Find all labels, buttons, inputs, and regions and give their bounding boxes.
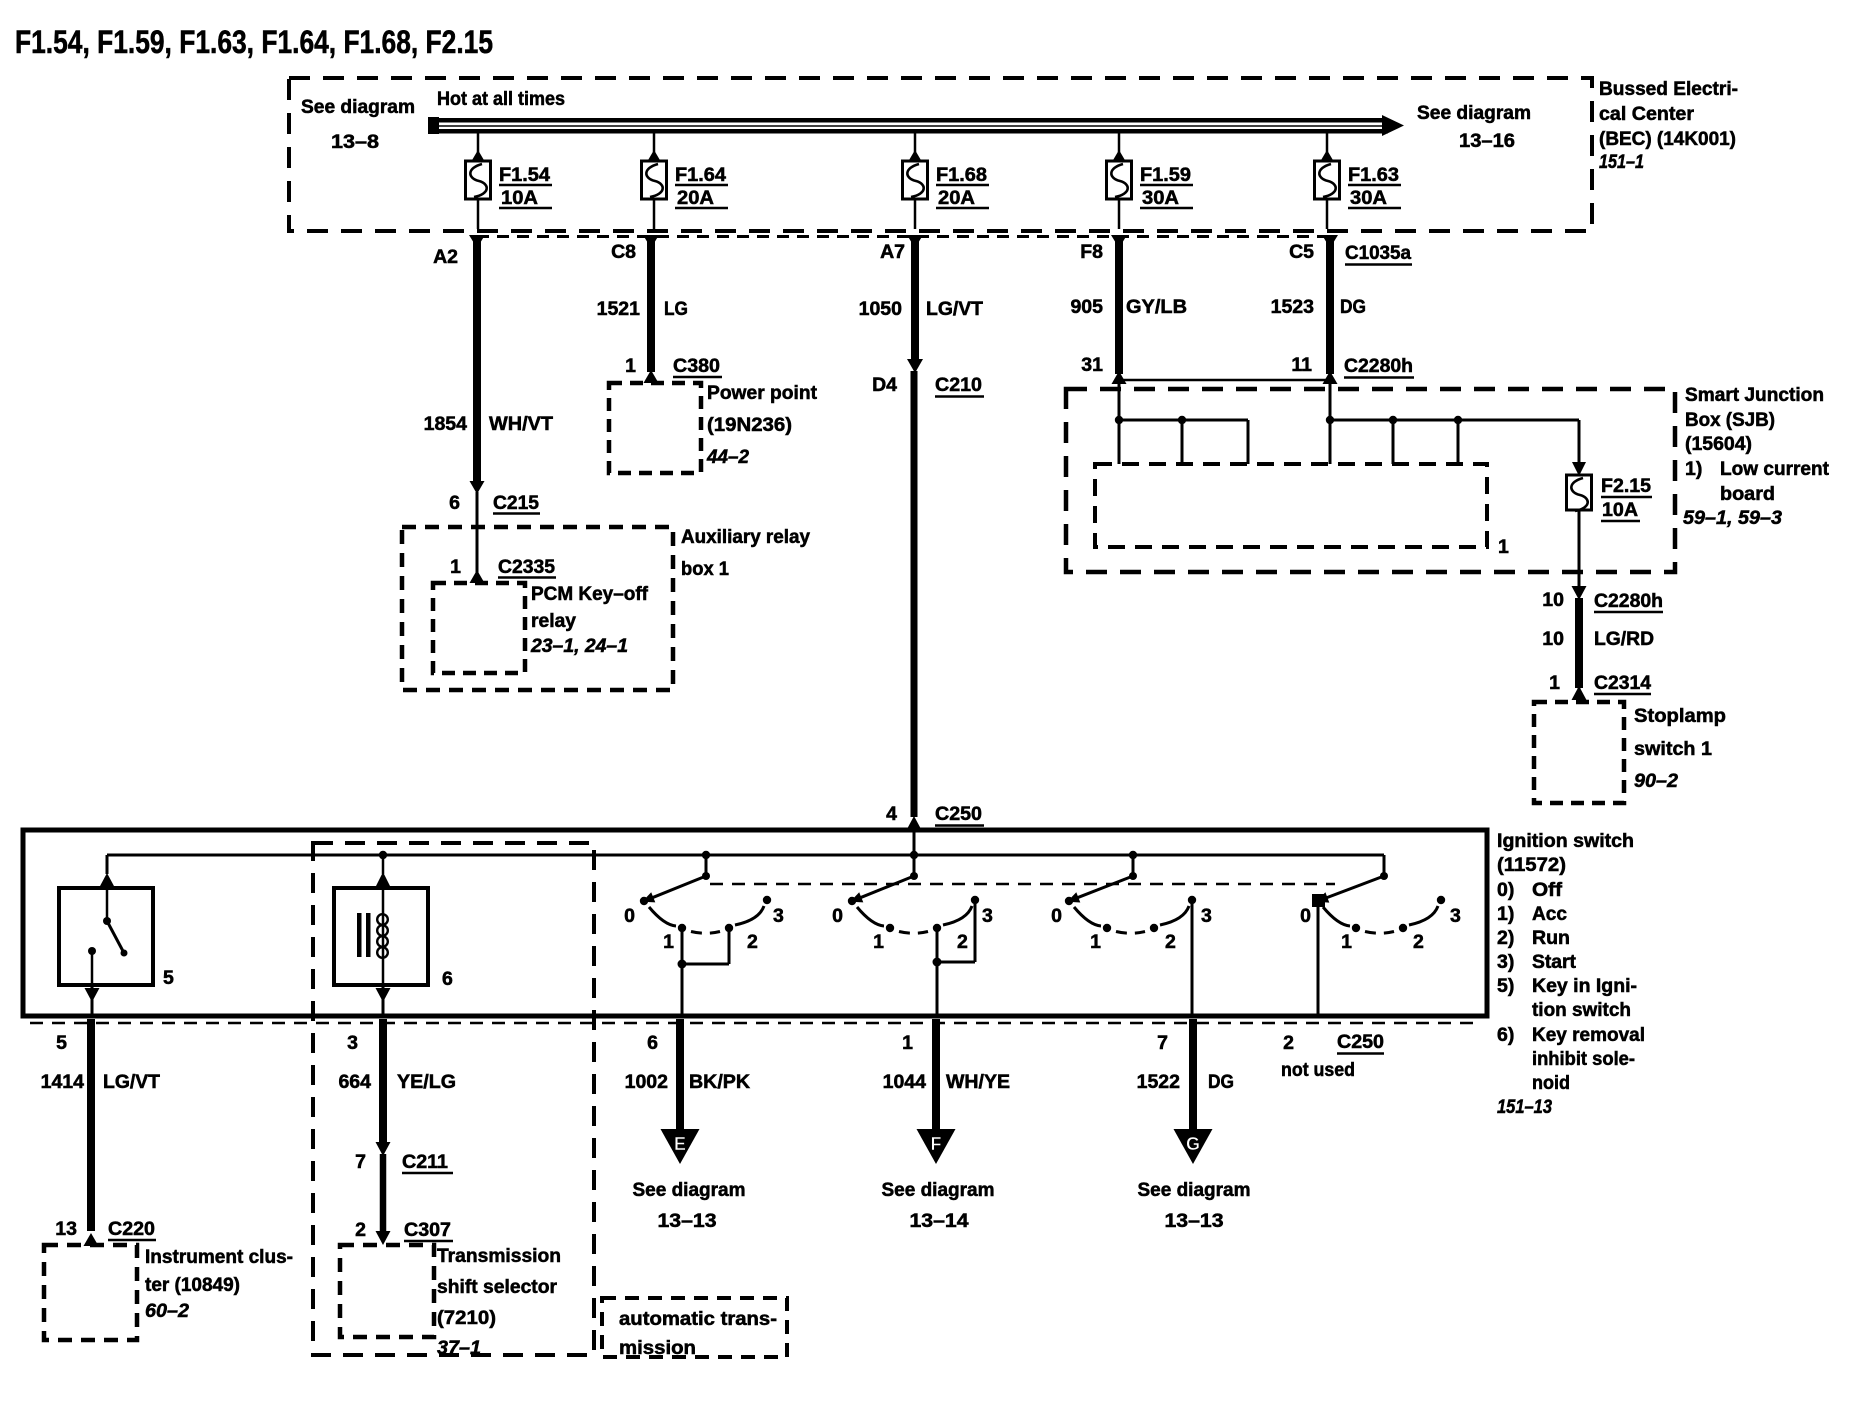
svg-text:E: E xyxy=(674,1134,686,1154)
svg-text:1: 1 xyxy=(450,556,461,578)
svg-text:Stoplamp: Stoplamp xyxy=(1634,705,1726,727)
svg-text:C2280h: C2280h xyxy=(1594,590,1663,612)
svg-text:DG: DG xyxy=(1340,296,1366,318)
svg-text:F8: F8 xyxy=(1080,241,1103,263)
svg-text:6: 6 xyxy=(647,1032,658,1054)
svg-text:Start: Start xyxy=(1532,951,1576,973)
svg-text:10: 10 xyxy=(1542,589,1564,611)
svg-text:F2.15: F2.15 xyxy=(1601,475,1651,497)
svg-text:F1.59: F1.59 xyxy=(1140,164,1191,186)
svg-text:7: 7 xyxy=(1157,1032,1168,1054)
svg-text:Key in Igni-: Key in Igni- xyxy=(1532,975,1637,997)
svg-text:C215: C215 xyxy=(493,492,539,514)
svg-text:13–14: 13–14 xyxy=(910,1210,969,1232)
svg-text:C250: C250 xyxy=(1337,1031,1384,1053)
svg-text:3: 3 xyxy=(982,905,993,927)
svg-text:A7: A7 xyxy=(880,241,905,263)
svg-text:Transmission: Transmission xyxy=(437,1245,561,1267)
svg-text:6): 6) xyxy=(1497,1024,1514,1046)
svg-text:F1.64: F1.64 xyxy=(675,164,726,186)
svg-text:Smart Junction: Smart Junction xyxy=(1685,384,1824,406)
svg-text:LG: LG xyxy=(664,298,688,320)
svg-text:C1035a: C1035a xyxy=(1345,242,1411,264)
svg-text:C2335: C2335 xyxy=(498,556,555,578)
svg-text:(11572): (11572) xyxy=(1497,854,1566,876)
svg-text:Power point: Power point xyxy=(707,382,817,404)
svg-text:31: 31 xyxy=(1081,354,1103,376)
svg-text:Off: Off xyxy=(1532,879,1563,901)
svg-text:0: 0 xyxy=(1051,905,1062,927)
svg-text:box 1: box 1 xyxy=(681,558,729,580)
svg-text:13: 13 xyxy=(55,1218,77,1240)
svg-text:BK/PK: BK/PK xyxy=(689,1071,750,1093)
svg-text:C250: C250 xyxy=(935,803,982,825)
svg-text:0): 0) xyxy=(1497,879,1514,901)
svg-text:F1.63: F1.63 xyxy=(1348,164,1399,186)
svg-text:11: 11 xyxy=(1291,354,1312,376)
svg-text:D4: D4 xyxy=(872,374,897,396)
svg-text:151–1: 151–1 xyxy=(1599,151,1644,173)
svg-text:LG/RD: LG/RD xyxy=(1594,628,1654,650)
svg-text:See diagram: See diagram xyxy=(1138,1179,1251,1201)
svg-text:6: 6 xyxy=(449,492,460,514)
svg-text:10A: 10A xyxy=(1602,499,1638,521)
svg-text:10: 10 xyxy=(1542,628,1564,650)
svg-text:1050: 1050 xyxy=(859,298,903,320)
svg-text:Key removal: Key removal xyxy=(1532,1024,1645,1046)
svg-text:C5: C5 xyxy=(1289,241,1314,263)
svg-text:LG/VT: LG/VT xyxy=(926,298,983,320)
svg-text:G: G xyxy=(1186,1134,1200,1154)
svg-text:3): 3) xyxy=(1497,951,1514,973)
svg-text:Box (SJB): Box (SJB) xyxy=(1685,409,1775,431)
svg-text:3: 3 xyxy=(1201,905,1212,927)
svg-text:C220: C220 xyxy=(108,1218,155,1240)
svg-text:1002: 1002 xyxy=(625,1071,669,1093)
svg-text:noid: noid xyxy=(1532,1072,1570,1094)
svg-text:90–2: 90–2 xyxy=(1634,770,1678,792)
svg-text:1521: 1521 xyxy=(597,298,641,320)
svg-text:F1.54, F1.59, F1.63, F1.64, F1: F1.54, F1.59, F1.63, F1.64, F1.68, F2.15 xyxy=(15,24,493,60)
svg-text:1: 1 xyxy=(663,931,674,953)
svg-text:C211: C211 xyxy=(402,1151,448,1173)
svg-text:1: 1 xyxy=(1090,931,1101,953)
svg-text:1: 1 xyxy=(873,931,884,953)
svg-text:59–1, 59–3: 59–1, 59–3 xyxy=(1683,507,1782,529)
svg-text:905: 905 xyxy=(1070,296,1103,318)
svg-text:2: 2 xyxy=(355,1219,366,1241)
svg-text:not used: not used xyxy=(1281,1059,1355,1081)
svg-text:Run: Run xyxy=(1532,927,1570,949)
svg-text:5: 5 xyxy=(56,1032,67,1054)
svg-text:2: 2 xyxy=(1283,1032,1294,1054)
svg-text:20A: 20A xyxy=(938,187,975,209)
svg-text:(15604): (15604) xyxy=(1685,433,1752,455)
svg-text:board: board xyxy=(1720,483,1775,505)
svg-text:2: 2 xyxy=(1165,931,1176,953)
svg-text:Low current: Low current xyxy=(1720,458,1829,480)
svg-text:30A: 30A xyxy=(1350,187,1387,209)
svg-text:1: 1 xyxy=(1341,931,1352,953)
svg-text:1: 1 xyxy=(1549,672,1560,694)
svg-text:1414: 1414 xyxy=(41,1071,85,1093)
svg-text:WH/YE: WH/YE xyxy=(946,1071,1010,1093)
svg-text:WH/VT: WH/VT xyxy=(489,413,553,435)
svg-text:C307: C307 xyxy=(404,1219,451,1241)
svg-text:C380: C380 xyxy=(673,355,720,377)
svg-text:2: 2 xyxy=(1413,931,1424,953)
svg-text:1): 1) xyxy=(1497,903,1514,925)
svg-text:2): 2) xyxy=(1497,927,1514,949)
svg-text:13–13: 13–13 xyxy=(1165,1210,1224,1232)
svg-text:664: 664 xyxy=(338,1071,371,1093)
svg-text:5: 5 xyxy=(163,967,174,989)
svg-text:See diagram: See diagram xyxy=(882,1179,995,1201)
svg-text:cal Center: cal Center xyxy=(1599,103,1694,125)
svg-text:0: 0 xyxy=(1300,905,1311,927)
svg-text:C210: C210 xyxy=(935,374,982,396)
svg-text:13–8: 13–8 xyxy=(331,131,379,153)
svg-text:Ignition switch: Ignition switch xyxy=(1497,830,1634,852)
svg-text:3: 3 xyxy=(773,905,784,927)
svg-text:F1.68: F1.68 xyxy=(936,164,987,186)
svg-text:relay: relay xyxy=(531,610,576,632)
svg-text:23–1, 24–1: 23–1, 24–1 xyxy=(530,635,628,657)
svg-text:37–1: 37–1 xyxy=(437,1337,481,1359)
svg-text:0: 0 xyxy=(832,905,843,927)
svg-text:3: 3 xyxy=(1450,905,1461,927)
svg-text:2: 2 xyxy=(747,931,758,953)
svg-text:1: 1 xyxy=(902,1032,913,1054)
svg-text:LG/VT: LG/VT xyxy=(103,1071,160,1093)
svg-text:DG: DG xyxy=(1208,1071,1234,1093)
svg-text:shift selector: shift selector xyxy=(437,1276,557,1298)
svg-text:10A: 10A xyxy=(501,187,538,209)
svg-text:151–13: 151–13 xyxy=(1497,1096,1552,1118)
svg-text:See diagram: See diagram xyxy=(301,96,415,118)
svg-text:A2: A2 xyxy=(433,246,458,268)
svg-text:PCM Key–off: PCM Key–off xyxy=(531,583,648,605)
svg-text:20A: 20A xyxy=(677,187,714,209)
svg-text:Hot at all times: Hot at all times xyxy=(437,88,565,110)
svg-text:1523: 1523 xyxy=(1271,296,1315,318)
svg-text:(7210): (7210) xyxy=(437,1307,496,1329)
svg-text:1): 1) xyxy=(1685,458,1702,480)
svg-text:0: 0 xyxy=(624,905,635,927)
svg-text:See diagram: See diagram xyxy=(633,1179,746,1201)
svg-text:7: 7 xyxy=(355,1151,366,1173)
svg-text:(19N236): (19N236) xyxy=(707,414,792,436)
svg-text:13–13: 13–13 xyxy=(658,1210,717,1232)
svg-text:1: 1 xyxy=(1498,536,1509,558)
svg-text:ter (10849): ter (10849) xyxy=(145,1274,240,1296)
svg-text:1044: 1044 xyxy=(883,1071,927,1093)
svg-text:44–2: 44–2 xyxy=(706,446,749,468)
svg-text:1854: 1854 xyxy=(424,413,468,435)
svg-text:mission: mission xyxy=(619,1337,696,1359)
svg-text:YE/LG: YE/LG xyxy=(397,1071,456,1093)
svg-text:GY/LB: GY/LB xyxy=(1126,296,1187,318)
svg-text:inhibit sole-: inhibit sole- xyxy=(1532,1048,1635,1070)
svg-text:30A: 30A xyxy=(1142,187,1179,209)
svg-text:1: 1 xyxy=(625,355,636,377)
svg-text:Auxiliary relay: Auxiliary relay xyxy=(681,526,810,548)
svg-text:tion switch: tion switch xyxy=(1532,999,1631,1021)
svg-text:(BEC) (14K001): (BEC) (14K001) xyxy=(1599,128,1736,150)
svg-text:C2280h: C2280h xyxy=(1344,355,1413,377)
svg-text:2: 2 xyxy=(957,931,968,953)
svg-text:automatic trans-: automatic trans- xyxy=(619,1308,777,1330)
svg-text:Bussed Electri-: Bussed Electri- xyxy=(1599,78,1738,100)
svg-text:6: 6 xyxy=(442,968,453,990)
svg-text:F: F xyxy=(931,1134,942,1154)
svg-text:Acc: Acc xyxy=(1532,903,1567,925)
svg-text:60–2: 60–2 xyxy=(145,1300,189,1322)
svg-text:5): 5) xyxy=(1497,975,1514,997)
svg-text:See diagram: See diagram xyxy=(1417,102,1531,124)
svg-text:3: 3 xyxy=(347,1032,358,1054)
svg-text:1522: 1522 xyxy=(1137,1071,1181,1093)
svg-text:Instrument clus-: Instrument clus- xyxy=(145,1246,293,1268)
svg-text:F1.54: F1.54 xyxy=(499,164,550,186)
svg-text:13–16: 13–16 xyxy=(1459,130,1515,152)
svg-text:C8: C8 xyxy=(611,241,636,263)
svg-text:4: 4 xyxy=(886,803,897,825)
svg-text:switch 1: switch 1 xyxy=(1634,738,1712,760)
svg-text:C2314: C2314 xyxy=(1594,672,1651,694)
